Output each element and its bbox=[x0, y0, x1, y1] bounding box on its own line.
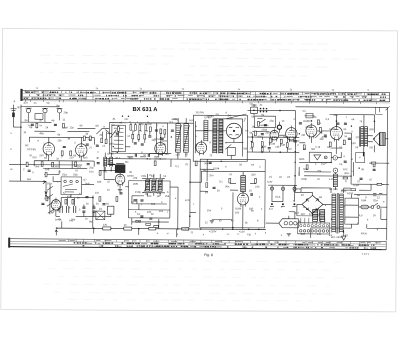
svg-text:0,1: 0,1 bbox=[175, 165, 179, 168]
svg-text:+12V: +12V bbox=[239, 230, 245, 233]
svg-text:110: 110 bbox=[295, 212, 300, 215]
resistor R20 bbox=[343, 140, 345, 145]
svg-text:TA: TA bbox=[339, 163, 342, 166]
band switch box S1 bbox=[61, 177, 82, 195]
capacitor C4 bbox=[31, 124, 34, 125]
svg-text:220: 220 bbox=[301, 233, 306, 236]
wire transformer top feeds bbox=[301, 152, 363, 193]
wire bottom bus labels area bbox=[212, 218, 232, 220]
svg-text:150: 150 bbox=[39, 154, 44, 157]
wire speaker return bbox=[374, 139, 388, 153]
svg-text:50k: 50k bbox=[204, 162, 209, 165]
wire detector bus bbox=[247, 121, 299, 137]
wire S1 leads bbox=[53, 176, 94, 197]
output section box bbox=[200, 159, 265, 228]
svg-text:B7: B7 bbox=[301, 194, 305, 197]
svg-text:A: A bbox=[14, 100, 16, 103]
wire box internals left bbox=[200, 159, 214, 191]
resistor R25 bbox=[206, 183, 208, 188]
svg-text:3n9: 3n9 bbox=[85, 183, 90, 186]
electrolytic C12 bbox=[107, 206, 114, 214]
svg-text:6p8: 6p8 bbox=[63, 126, 68, 129]
svg-text:2x45: 2x45 bbox=[55, 218, 61, 221]
svg-text:kc/s: kc/s bbox=[189, 119, 194, 122]
mains switch bbox=[371, 203, 380, 208]
svg-text:20p: 20p bbox=[63, 111, 68, 114]
svg-text:47k: 47k bbox=[257, 136, 262, 139]
svg-text:VOL: VOL bbox=[141, 175, 147, 178]
ground bbox=[210, 221, 214, 223]
driver transformer winding bbox=[241, 175, 246, 192]
svg-text:250p: 250p bbox=[305, 126, 311, 129]
pot arrows bbox=[144, 178, 164, 193]
resistor R4 bbox=[70, 151, 72, 156]
svg-text:L15: L15 bbox=[329, 178, 334, 181]
svg-text:125: 125 bbox=[309, 213, 314, 216]
resistor R24 bbox=[255, 179, 257, 184]
svg-text:1k8: 1k8 bbox=[45, 168, 50, 171]
svg-text:BX 631 A: BX 631 A bbox=[132, 106, 158, 113]
osc section parts row2 bbox=[132, 134, 134, 139]
resistor R10 on bus bbox=[103, 227, 111, 230]
ground bbox=[287, 234, 291, 236]
svg-text:220p: 220p bbox=[301, 178, 307, 181]
svg-text:800: 800 bbox=[369, 128, 374, 131]
svg-text:6,3V: 6,3V bbox=[267, 181, 273, 184]
dial lamp 3 bbox=[293, 187, 296, 190]
osc section parts row1 bbox=[130, 125, 147, 131]
crystal box bbox=[96, 211, 105, 220]
heater ground marks bbox=[271, 203, 296, 205]
capacitor C5 bbox=[54, 124, 57, 125]
capacitor C20 bbox=[133, 200, 136, 201]
svg-text:150p: 150p bbox=[135, 191, 141, 194]
resistor R28 bbox=[286, 143, 288, 148]
svg-text:C1: C1 bbox=[111, 124, 115, 127]
svg-text:145: 145 bbox=[317, 213, 322, 216]
wire top rail right bbox=[295, 107, 388, 241]
svg-text:UL84: UL84 bbox=[213, 167, 220, 170]
resistor R8 bbox=[65, 199, 67, 204]
wire mains bbox=[344, 206, 387, 219]
svg-text:10,7Mc: 10,7Mc bbox=[195, 111, 204, 114]
svg-text:UF85: UF85 bbox=[107, 153, 114, 156]
switch box right of IF can bbox=[254, 116, 275, 128]
svg-text:1M: 1M bbox=[251, 126, 255, 129]
wire top coils bus bbox=[21, 107, 60, 123]
resistor R19 bbox=[329, 142, 331, 147]
dial scale strip top bbox=[20, 89, 389, 104]
misc small parts top mid bbox=[117, 127, 119, 132]
dark marks on bus bbox=[149, 227, 156, 230]
electrolytic cap above can bbox=[250, 104, 257, 114]
svg-text:25k: 25k bbox=[165, 195, 170, 198]
svg-text:100: 100 bbox=[235, 211, 240, 214]
wire V10 leads bbox=[104, 159, 120, 189]
svg-text:0,1: 0,1 bbox=[137, 213, 141, 216]
svg-text:25n: 25n bbox=[207, 209, 212, 212]
svg-text:S5a: S5a bbox=[47, 182, 52, 185]
capacitor C10 bbox=[92, 207, 95, 208]
pot element 1 bbox=[146, 180, 150, 192]
resistor R15 bbox=[269, 138, 271, 143]
triode V2 bbox=[51, 198, 61, 212]
resistor R5 bbox=[41, 162, 43, 167]
resistor R1 bbox=[36, 123, 38, 128]
capacitor C8 bbox=[82, 207, 85, 208]
svg-text:Fig. 8: Fig. 8 bbox=[204, 253, 213, 257]
coil above V7 bbox=[304, 113, 314, 118]
resistor R11 on bus bbox=[124, 227, 132, 230]
svg-text:25n: 25n bbox=[209, 174, 214, 177]
resistor R23 bbox=[229, 178, 231, 183]
svg-text:30H: 30H bbox=[344, 172, 349, 175]
svg-text:E2: E2 bbox=[345, 234, 349, 237]
pot element 2 bbox=[152, 180, 156, 192]
lower mid resistor caps cluster bbox=[136, 220, 141, 222]
svg-text:0,1: 0,1 bbox=[219, 180, 223, 183]
capacitor C9 bbox=[82, 211, 85, 212]
svg-text:0,5M: 0,5M bbox=[269, 143, 275, 146]
wires in rectifier box bbox=[345, 194, 359, 228]
IF tube V4 bbox=[196, 140, 207, 156]
voltage adjust resistor B bbox=[320, 209, 325, 221]
svg-text:S2b: S2b bbox=[333, 188, 338, 191]
wire V3 leads bbox=[149, 137, 171, 159]
triode V1b bbox=[76, 142, 87, 158]
wire transformer to speaker bbox=[359, 115, 373, 157]
wire IF can internals bbox=[195, 114, 246, 160]
svg-text:130: 130 bbox=[351, 142, 356, 145]
svg-text:UL84: UL84 bbox=[235, 207, 242, 210]
resistor R9 bbox=[72, 199, 74, 204]
svg-text:245: 245 bbox=[317, 233, 322, 236]
small caps in box bbox=[213, 187, 216, 188]
svg-text:1M: 1M bbox=[95, 192, 99, 195]
misc small parts lower left bbox=[26, 162, 28, 167]
svg-text:47k: 47k bbox=[133, 177, 138, 180]
FM IF coil a bbox=[104, 157, 107, 167]
connector strip bottom right bbox=[279, 219, 299, 228]
right mid wires bbox=[299, 162, 389, 184]
wire top-right switch marks bbox=[375, 106, 389, 114]
wire heater chain bbox=[268, 185, 297, 202]
svg-text:470k: 470k bbox=[321, 136, 327, 139]
right compartment parts bbox=[160, 129, 162, 134]
loudspeaker bbox=[373, 132, 385, 145]
svg-text:M4: M4 bbox=[27, 178, 31, 181]
wire tone caps row bbox=[132, 196, 167, 210]
svg-text:5,7k: 5,7k bbox=[315, 146, 321, 149]
svg-text:0,1: 0,1 bbox=[317, 122, 321, 125]
pickup box bbox=[309, 152, 331, 162]
wire V1 anode links bbox=[29, 137, 94, 144]
wire antenna feed bbox=[13, 126, 20, 128]
wire screen bus bbox=[43, 161, 87, 169]
power transformer primary bbox=[332, 194, 336, 233]
FM osc coil L2 with trimmer bbox=[42, 108, 48, 122]
svg-text:6,3: 6,3 bbox=[359, 214, 363, 217]
triode V1a bbox=[43, 141, 54, 157]
voltage selector plug row 1 bbox=[300, 224, 329, 227]
svg-text:B2: B2 bbox=[25, 144, 29, 147]
svg-text:± 4,5 V: ± 4,5 V bbox=[362, 253, 370, 256]
svg-text:0,5M: 0,5M bbox=[353, 184, 359, 187]
switch contacts inside S1 bbox=[63, 180, 78, 192]
resistor R17 bbox=[303, 145, 305, 150]
svg-text:TA: TA bbox=[163, 175, 166, 178]
wire V8 cathode network bbox=[330, 133, 351, 154]
svg-text:M: M bbox=[167, 232, 169, 235]
svg-text:B250: B250 bbox=[295, 188, 302, 191]
svg-text:10n: 10n bbox=[89, 171, 94, 174]
mixer tube V3 bbox=[155, 140, 166, 156]
junction dots det bbox=[252, 136, 254, 138]
wire audio couplings bbox=[299, 114, 374, 143]
IF transformer T1 primary bbox=[176, 124, 181, 153]
svg-text:L12: L12 bbox=[107, 160, 112, 163]
svg-text:1M: 1M bbox=[281, 144, 285, 147]
svg-text:AZ41: AZ41 bbox=[347, 192, 354, 195]
svg-text:50k: 50k bbox=[243, 147, 248, 150]
svg-text:+210V: +210V bbox=[209, 230, 217, 233]
FM dipole antenna bbox=[10, 105, 16, 128]
IF transformer T2 windings bbox=[204, 120, 208, 141]
svg-text:0,1A: 0,1A bbox=[275, 196, 281, 199]
svg-text:7n5: 7n5 bbox=[69, 219, 74, 222]
wires inside AM box bbox=[109, 123, 193, 148]
AF tube V6 bbox=[286, 126, 297, 142]
svg-text:EL84: EL84 bbox=[329, 128, 336, 131]
svg-text:500: 500 bbox=[283, 136, 288, 139]
DIN socket b bbox=[333, 168, 338, 173]
mains fuse bbox=[361, 205, 369, 209]
output transformer secondary bbox=[364, 127, 367, 147]
svg-text:G: G bbox=[303, 206, 305, 209]
svg-text:460: 460 bbox=[109, 143, 114, 146]
svg-text:22n: 22n bbox=[333, 114, 338, 117]
svg-text:1M5: 1M5 bbox=[261, 146, 267, 149]
svg-text:5Ω: 5Ω bbox=[369, 146, 372, 149]
AGC line left bbox=[9, 164, 82, 166]
wire cathode bus bbox=[34, 155, 94, 167]
resistor R18 bbox=[319, 127, 321, 132]
svg-text:S8: S8 bbox=[95, 125, 99, 128]
labels above top strip bbox=[36, 87, 370, 92]
IF transformer T1 secondary bbox=[184, 124, 189, 153]
resistor R7 bbox=[75, 162, 77, 167]
capacitor C18 bbox=[348, 138, 351, 139]
component cluster right of V1b bbox=[77, 128, 109, 140]
wire V2 anode bbox=[61, 195, 93, 228]
top right link wires bbox=[311, 224, 387, 233]
IF can box outline bbox=[193, 115, 247, 161]
wire mid links bbox=[125, 159, 202, 227]
resistor R16 bbox=[280, 139, 282, 144]
capacitor C14 bbox=[261, 134, 264, 135]
svg-text:170: 170 bbox=[355, 136, 360, 139]
switch contact slashes left bbox=[47, 186, 54, 213]
svg-text:5p6: 5p6 bbox=[161, 143, 166, 146]
svg-text:IF2: IF2 bbox=[103, 171, 107, 174]
wire to connector strip bbox=[266, 212, 295, 224]
wire left return bbox=[9, 181, 47, 195]
bleed-through ghosts bottom bbox=[43, 260, 344, 301]
dial lamp 1 bbox=[270, 187, 273, 190]
svg-text:2n2: 2n2 bbox=[159, 210, 164, 213]
voltage selector board outline bbox=[298, 223, 330, 234]
voltage adjust resistor A bbox=[313, 209, 318, 221]
capacitor C6 between triodes bbox=[63, 146, 66, 147]
wire v2 bottom bus bbox=[56, 198, 111, 217]
svg-text:S6: S6 bbox=[24, 119, 28, 122]
IF transformer T3 winding A bbox=[213, 119, 217, 153]
svg-text:2M5: 2M5 bbox=[133, 183, 139, 186]
svg-text:S9: S9 bbox=[215, 113, 219, 116]
AM gang capacitor frame bbox=[112, 125, 126, 152]
svg-text:UF80: UF80 bbox=[44, 197, 51, 200]
svg-text:50p: 50p bbox=[128, 157, 133, 160]
wire bridge top/bottom bbox=[295, 192, 332, 216]
svg-text:12p: 12p bbox=[69, 126, 74, 129]
ground bbox=[118, 190, 122, 192]
FM input coil L1 with trimmer bbox=[25, 108, 31, 122]
svg-text:47k: 47k bbox=[157, 192, 162, 195]
svg-text:2n7: 2n7 bbox=[165, 153, 170, 156]
shielded coil housing (dark) bbox=[115, 164, 125, 173]
capacitor C17 bbox=[324, 135, 327, 136]
capacitor C11 bbox=[92, 211, 95, 212]
svg-text:470: 470 bbox=[24, 102, 29, 105]
svg-text:S1a: S1a bbox=[62, 173, 67, 176]
svg-text:S7: S7 bbox=[39, 119, 43, 122]
svg-text:120: 120 bbox=[103, 224, 108, 227]
svg-text:330: 330 bbox=[251, 174, 256, 177]
svg-text:50c/s: 50c/s bbox=[361, 232, 368, 235]
output tube V8 bbox=[330, 125, 342, 142]
resistor R26 bbox=[251, 143, 253, 148]
svg-text:1k2: 1k2 bbox=[77, 165, 82, 168]
band switch lever bbox=[105, 130, 116, 138]
dial lamp 2 bbox=[281, 187, 284, 190]
coil below wafer bbox=[227, 147, 235, 155]
resistor R21 bbox=[343, 177, 348, 179]
capacitor C16 above V8 bbox=[336, 123, 339, 124]
capacitor C15 bbox=[294, 141, 297, 142]
detector caps row bbox=[60, 206, 76, 213]
T1 tuning arrows bbox=[175, 125, 189, 151]
bridge rectifier bbox=[302, 195, 323, 213]
IF transformer T3 winding B bbox=[219, 119, 223, 153]
svg-text:+225V: +225V bbox=[182, 228, 190, 231]
wire bus drops bbox=[62, 221, 311, 238]
svg-text:0,3: 0,3 bbox=[325, 118, 329, 121]
svg-text:220: 220 bbox=[147, 211, 152, 214]
rectifier box bbox=[345, 198, 359, 224]
wire lower audio bbox=[341, 184, 371, 190]
svg-text:25p: 25p bbox=[89, 167, 94, 170]
detector lower bus bbox=[247, 133, 299, 152]
mains arrows right bbox=[354, 194, 387, 196]
svg-text:22k: 22k bbox=[57, 139, 62, 142]
pot top/bottom rails bbox=[142, 174, 165, 196]
svg-text:IF1: IF1 bbox=[169, 121, 173, 124]
arrows misc (pot wipers) bbox=[57, 130, 322, 213]
svg-text:18k: 18k bbox=[97, 181, 102, 184]
main ground bus bbox=[56, 228, 266, 229]
tuning indicator disc bbox=[226, 123, 241, 138]
wire tuner grid lines bbox=[29, 131, 94, 137]
svg-text:5n6: 5n6 bbox=[287, 148, 292, 151]
wire long mid horizontals bbox=[104, 159, 170, 218]
svg-text:EABC: EABC bbox=[303, 120, 310, 123]
resistor R2 bbox=[62, 123, 64, 128]
phase splitter tube V9 bbox=[237, 191, 248, 207]
svg-text:390: 390 bbox=[54, 165, 59, 168]
labels above bottom strip bbox=[167, 232, 257, 236]
svg-text:25p: 25p bbox=[269, 120, 274, 123]
capacitor C21 bbox=[140, 200, 143, 201]
svg-text:47k: 47k bbox=[67, 195, 72, 198]
capacitor C7 bbox=[87, 164, 90, 165]
svg-text:220k: 220k bbox=[265, 132, 271, 135]
pot element 3 bbox=[158, 180, 162, 192]
ground arrow transformer bbox=[342, 230, 346, 240]
svg-text:110: 110 bbox=[301, 213, 306, 216]
gang rotor plates bbox=[114, 125, 124, 152]
svg-text:470: 470 bbox=[185, 199, 190, 202]
svg-text:A1: A1 bbox=[112, 118, 116, 121]
resistor R27 bbox=[261, 148, 263, 153]
wire IF links bbox=[178, 118, 186, 159]
capacitor C19 bbox=[251, 193, 252, 196]
AF preamp tube V10 bbox=[115, 172, 125, 186]
svg-text:0,8A: 0,8A bbox=[361, 199, 367, 202]
svg-text:r: r bbox=[157, 124, 158, 127]
svg-text:452: 452 bbox=[173, 118, 178, 121]
pickup crystal symbol bbox=[314, 155, 321, 160]
wire selector links bbox=[297, 216, 325, 224]
power transformer secondary bbox=[339, 194, 343, 233]
ground g1 bbox=[45, 195, 47, 197]
svg-text:EABC80: EABC80 bbox=[289, 140, 300, 143]
volume pot box bbox=[128, 181, 170, 210]
svg-text:110..245V: 110..245V bbox=[331, 236, 343, 239]
svg-text:EF85: EF85 bbox=[207, 115, 214, 118]
FM IF coil b bbox=[110, 157, 113, 167]
resistor R3 bbox=[61, 151, 63, 156]
svg-text:GR1: GR1 bbox=[299, 158, 305, 161]
svg-text:2M: 2M bbox=[301, 134, 305, 137]
svg-text:5k6: 5k6 bbox=[89, 221, 94, 224]
junction dots rails bbox=[253, 110, 255, 112]
wire main left vertical bbox=[20, 105, 22, 181]
dial scale strip bottom bbox=[8, 238, 386, 251]
divider line bbox=[155, 123, 157, 153]
svg-text:40p: 40p bbox=[39, 132, 44, 135]
bleed-through ghosts top bbox=[40, 42, 359, 82]
power transformer core bbox=[337, 193, 338, 234]
svg-text:1h2: 1h2 bbox=[343, 168, 348, 171]
svg-text:25k: 25k bbox=[317, 170, 322, 173]
svg-text:2V: 2V bbox=[373, 214, 376, 217]
svg-text:68k: 68k bbox=[151, 203, 156, 206]
voltage selector plug row 2 bbox=[300, 230, 329, 233]
wire aux links bbox=[299, 152, 354, 190]
svg-text:5k6: 5k6 bbox=[35, 165, 40, 168]
mains plug marks bbox=[380, 183, 384, 185]
FM trimmer C3 bbox=[56, 108, 62, 120]
